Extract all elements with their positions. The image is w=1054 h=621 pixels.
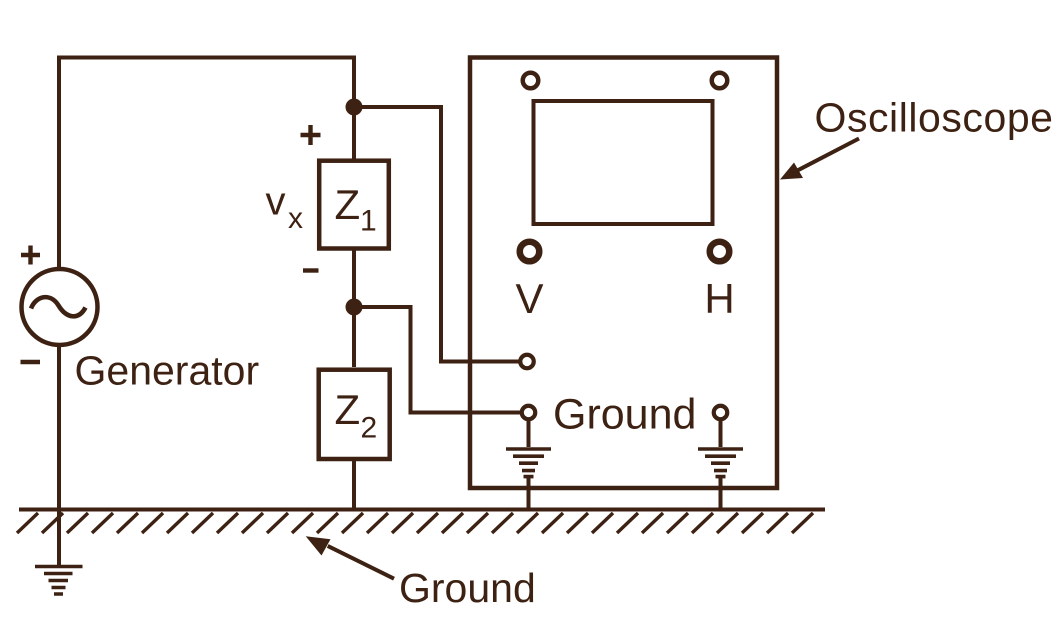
chassis ground right xyxy=(719,419,723,447)
svg-text:v: v xyxy=(266,180,286,224)
oscilloscope screen xyxy=(534,101,713,224)
arrow to earth ground line xyxy=(306,536,394,579)
earth ground symbol under generator xyxy=(35,567,83,595)
terminal top left xyxy=(523,73,539,89)
generator sine wave xyxy=(31,297,86,316)
arrow to oscilloscope xyxy=(780,139,859,180)
svg-text:H: H xyxy=(704,275,734,322)
polarity plus above Z1 xyxy=(301,125,321,145)
terminal H xyxy=(710,242,730,262)
oscilloscope enclosure xyxy=(470,58,777,489)
svg-text:2: 2 xyxy=(361,412,378,445)
earth ground line xyxy=(19,508,825,512)
generator source circle xyxy=(22,269,98,345)
svg-text:Generator: Generator xyxy=(75,348,260,394)
svg-text:Z: Z xyxy=(335,386,361,433)
impedance Z1 xyxy=(319,161,389,249)
chassis ground left xyxy=(527,419,531,447)
wire: generator plus terminal up and across top to node A xyxy=(59,58,354,269)
jack V input xyxy=(520,355,534,369)
wire: generator minus terminal down to earth symbol xyxy=(57,346,61,565)
wire: Z1 to Z2 through node B xyxy=(352,249,356,367)
svg-text:x: x xyxy=(288,202,303,235)
svg-text:Ground: Ground xyxy=(399,565,536,611)
jack H ground xyxy=(714,406,728,420)
wire: Z2 down to earth ground line xyxy=(352,459,356,511)
wire: node A to V input jack xyxy=(354,107,519,362)
svg-text:Ground: Ground xyxy=(553,391,696,439)
svg-text:V: V xyxy=(515,275,543,322)
terminal top right xyxy=(712,73,728,89)
svg-text:Oscilloscope: Oscilloscope xyxy=(815,94,1054,140)
jack ground input xyxy=(522,406,536,420)
wire: node B to ground input jack xyxy=(354,307,520,413)
svg-text:Z: Z xyxy=(335,181,361,228)
polarity plus at generator xyxy=(21,246,40,265)
polarity minus below Z1 xyxy=(303,268,319,272)
node A junction dot xyxy=(346,99,363,116)
node B junction dot xyxy=(346,299,363,316)
impedance Z2 xyxy=(319,370,390,459)
svg-text:1: 1 xyxy=(360,205,377,238)
terminal V xyxy=(520,242,540,262)
earth ground hatching xyxy=(17,513,813,533)
polarity minus at generator xyxy=(21,360,41,364)
wire: node A down to Z1 xyxy=(352,107,356,160)
